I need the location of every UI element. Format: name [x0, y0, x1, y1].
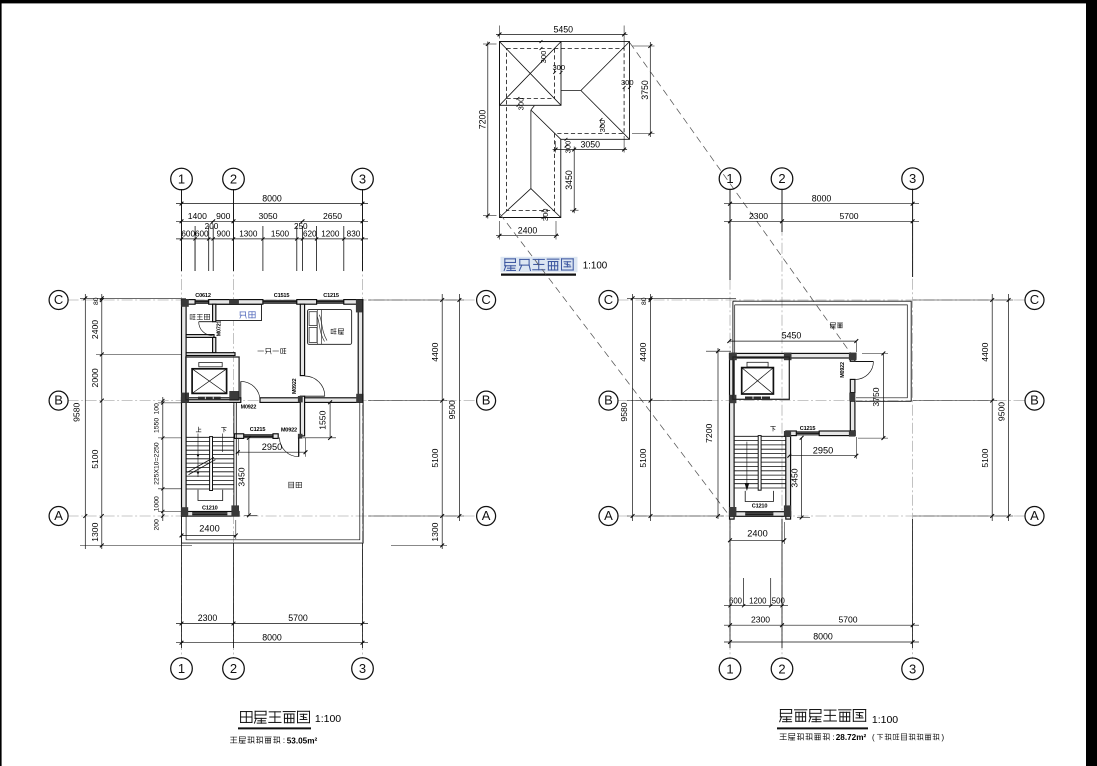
core right wall upper: [850, 358, 855, 361]
svg-text:C1215: C1215: [323, 293, 339, 299]
svg-text:8000: 8000: [812, 193, 832, 203]
svg-text:3450: 3450: [564, 170, 574, 190]
svg-text:4400: 4400: [638, 342, 648, 361]
svg-text:): ): [942, 733, 945, 742]
svg-text:A: A: [54, 508, 63, 523]
dim 2950: [238, 451, 306, 453]
roof eave outline: [500, 42, 630, 218]
svg-text:5100: 5100: [430, 448, 440, 467]
svg-text:1000: 1000: [154, 496, 161, 511]
svg-text:4400: 4400: [430, 342, 440, 361]
grid bubble 1: [171, 658, 193, 680]
grid bubble 3: [902, 658, 924, 680]
stair railing lower: [198, 490, 223, 501]
svg-text:1200: 1200: [749, 596, 767, 605]
lower hip left: [500, 189, 531, 218]
svg-text:600: 600: [729, 596, 743, 605]
stair divider: [210, 437, 213, 491]
door M0922 right plan arc: [856, 362, 874, 380]
svg-text:900: 900: [217, 230, 231, 239]
svg-text:830: 830: [347, 230, 361, 239]
svg-text:8000: 8000: [262, 193, 282, 203]
svg-text:9580: 9580: [71, 403, 81, 422]
left plan B wall: [182, 398, 241, 403]
valley line: [531, 110, 561, 139]
dim 1550 left plan: [329, 402, 331, 438]
projection ray 2: [630, 43, 851, 353]
svg-text:M0922: M0922: [241, 404, 257, 410]
living room label: [258, 350, 264, 352]
svg-text:8000: 8000: [813, 632, 833, 642]
svg-text:300: 300: [541, 208, 550, 221]
svg-text:2650: 2650: [323, 211, 342, 221]
elevator shaft left plan: [186, 357, 239, 400]
svg-text:53.05m²: 53.05m²: [287, 736, 318, 745]
terrace door M0922 (B wall) leaf: [240, 381, 242, 400]
left plan A wall with C1210: [182, 512, 240, 517]
columns left plan: [181, 299, 189, 307]
elevator car: [192, 369, 227, 394]
extension lines right: [368, 299, 464, 301]
svg-text:2: 2: [778, 171, 785, 186]
elevator sill rect: [199, 363, 222, 367]
svg-text:A: A: [1030, 508, 1039, 523]
left plan bottom dims: [181, 543, 183, 648]
big roof hip NE: [581, 42, 630, 91]
svg-text:2000: 2000: [90, 368, 100, 387]
grid bubble A: [1025, 507, 1044, 526]
svg-text:1300: 1300: [239, 230, 258, 239]
svg-text:225X10=2250: 225X10=2250: [154, 442, 161, 485]
svg-text:5100: 5100: [90, 449, 100, 468]
stairs right plan: [735, 435, 758, 437]
left plan right dim lines: [441, 294, 443, 549]
dashed wall outline (L shape): [507, 49, 625, 211]
svg-text:2400: 2400: [747, 529, 767, 539]
svg-text:C1215: C1215: [250, 427, 266, 433]
svg-text:B: B: [1030, 393, 1039, 408]
left plan left wall (axis1): [182, 300, 187, 517]
left plan left dim lines: [84, 294, 86, 549]
roof dim 2400 bottom: [496, 235, 559, 237]
lower hip right: [531, 189, 561, 218]
projection ray 1: [500, 214, 729, 515]
stair railing right plan: [745, 491, 773, 502]
stove label (blue): [240, 312, 246, 318]
left plan subtitle: [230, 737, 237, 743]
page border right: [1086, 0, 1097, 766]
right dim 2300/5700: [724, 220, 919, 222]
svg-text::: :: [283, 736, 285, 745]
terrace label: [289, 482, 294, 488]
svg-text:8000: 8000: [262, 632, 282, 642]
left dim row 1400/900/3050/2650: [176, 220, 368, 222]
dim 2950 right plan: [789, 455, 856, 457]
grid bubble 1: [171, 168, 193, 190]
grid bubble C: [599, 291, 618, 310]
svg-text:500: 500: [772, 596, 786, 605]
bedroom east outer line: [362, 300, 364, 403]
roof plan group: [478, 24, 655, 239]
svg-text:C: C: [604, 292, 613, 307]
svg-text:5450: 5450: [554, 24, 574, 34]
right plan left dim lines: [632, 294, 634, 521]
grid bubble C: [1025, 291, 1044, 310]
pavilion square roof: [500, 42, 562, 106]
svg-text::: :: [832, 733, 834, 742]
dim 7200 right plan: [717, 348, 719, 519]
svg-text:1300: 1300: [430, 522, 440, 541]
svg-text:1: 1: [178, 661, 185, 676]
right dim 8000: [724, 203, 919, 205]
dim 2400 right plan: [730, 539, 784, 541]
svg-text:5700: 5700: [288, 613, 308, 623]
svg-text:1:100: 1:100: [872, 714, 898, 726]
svg-text:C1210: C1210: [202, 506, 218, 512]
svg-text:M0922: M0922: [840, 362, 846, 378]
svg-text:600: 600: [195, 230, 209, 239]
svg-text:2400: 2400: [90, 320, 100, 339]
svg-text:2300: 2300: [751, 614, 770, 624]
svg-text:C1515: C1515: [274, 293, 290, 299]
grid bubble A: [49, 507, 68, 526]
svg-text:M0922: M0922: [281, 427, 297, 433]
svg-text:600: 600: [181, 230, 195, 239]
stair divider right: [758, 436, 761, 491]
svg-text:C: C: [54, 292, 63, 307]
grid bubble C: [477, 291, 496, 310]
svg-text:300: 300: [621, 78, 634, 87]
svg-text:5100: 5100: [980, 448, 990, 467]
svg-text:100: 100: [154, 403, 161, 415]
stove counter: [216, 305, 262, 321]
dim 2400 left plan bottom: [182, 534, 236, 536]
svg-text:3: 3: [359, 172, 366, 187]
left plan vertical axis lines: [181, 189, 183, 659]
hall door M0922 (south wall) leaf: [298, 438, 300, 457]
svg-text:3: 3: [909, 661, 916, 676]
stair labels up/down: [196, 427, 201, 432]
svg-text:3750: 3750: [871, 387, 881, 406]
grid bubble 2: [771, 168, 793, 190]
svg-text:B: B: [604, 393, 613, 408]
right plan left extensions: [627, 297, 736, 299]
svg-text:B: B: [54, 393, 63, 408]
bedroom partition wall: [300, 304, 304, 375]
svg-text:2950: 2950: [262, 442, 282, 452]
svg-text:1550: 1550: [154, 418, 161, 433]
svg-text:(: (: [872, 733, 875, 742]
svg-text:A: A: [604, 508, 613, 523]
columns right plan: [729, 353, 737, 361]
bathroom label: [190, 314, 195, 319]
svg-text:1: 1: [178, 172, 185, 187]
svg-text:3050: 3050: [581, 139, 601, 149]
svg-text:C1210: C1210: [752, 504, 768, 510]
core top wall: [730, 353, 857, 358]
hall south wall with C1215 + door: [235, 434, 244, 439]
dim 3750 right plan: [882, 353, 884, 438]
left plan horizontal axis lines: [68, 299, 478, 301]
extension lines left: [80, 297, 186, 299]
walk line with arrow: [746, 442, 748, 487]
svg-text:5700: 5700: [838, 614, 857, 624]
big roof ridge: [561, 90, 581, 92]
grid bubble 3: [352, 168, 374, 190]
svg-text:300: 300: [552, 63, 565, 72]
svg-text:3050: 3050: [258, 211, 277, 221]
grid bubble A: [599, 507, 618, 526]
svg-text:1400: 1400: [188, 211, 207, 221]
svg-text:900: 900: [216, 211, 231, 221]
left dim row 600..: [176, 238, 368, 240]
grid bubble 2: [223, 658, 245, 680]
right plan subtitle: [780, 734, 787, 740]
page border top: [0, 0, 1097, 3]
right plan title: [780, 710, 792, 722]
grid bubble 2: [223, 168, 245, 190]
svg-text:1500: 1500: [271, 230, 290, 239]
dashed pavilion walls: [507, 97, 555, 99]
hall door arc: [280, 438, 299, 457]
right dims 600/1200/500: [724, 605, 788, 607]
dim 3450 left plan: [248, 438, 250, 516]
right plan right extensions: [913, 299, 1013, 301]
svg-text:300: 300: [516, 98, 525, 111]
elevator shaft right plan: [733, 357, 789, 399]
C1215 wall right plan: [786, 431, 797, 436]
roof dim 3450 vertical: [573, 147, 575, 214]
svg-text:1300: 1300: [90, 522, 100, 541]
svg-text:1:100: 1:100: [315, 713, 341, 725]
svg-text:A: A: [482, 508, 491, 523]
page border left: [0, 0, 2, 766]
right plan right dim lines: [991, 294, 993, 521]
grid bubble B: [1025, 391, 1044, 410]
stair east wall right plan: [786, 436, 791, 519]
grid bubble 2: [771, 658, 793, 680]
terrace outline left plan: [182, 402, 364, 543]
right dims 2300/5700 bottom: [724, 624, 919, 626]
svg-text:C0612: C0612: [195, 293, 211, 299]
svg-text:300: 300: [598, 120, 607, 133]
roof dim 3050: [553, 149, 628, 151]
svg-text:1: 1: [726, 661, 733, 676]
big roof hip SE: [581, 91, 630, 140]
svg-text:C: C: [481, 292, 490, 307]
roof dim 7200 left: [487, 42, 489, 219]
svg-text:2: 2: [230, 172, 237, 187]
core left wall: [730, 353, 735, 519]
svg-text:3: 3: [359, 661, 366, 676]
svg-text:5450: 5450: [782, 331, 802, 341]
bed symbol: [308, 310, 352, 345]
lower band ridge: [530, 110, 532, 189]
svg-text:3450: 3450: [789, 468, 799, 487]
svg-text:1:100: 1:100: [583, 260, 608, 271]
left plan axis extension (top dims): [181, 189, 183, 271]
door M0922 right plan leaf: [856, 361, 874, 363]
bathroom south wall: [186, 335, 214, 338]
grid bubble 1: [719, 658, 741, 680]
stairs left plan: [187, 436, 210, 438]
svg-text:3450: 3450: [237, 467, 247, 486]
parapet outline right plan: [733, 301, 911, 401]
bathroom east wall: [213, 304, 216, 322]
svg-text:2: 2: [778, 661, 785, 676]
svg-text:9580: 9580: [619, 402, 629, 421]
down label right plan: [771, 426, 776, 431]
bedroom label: [331, 329, 336, 334]
terrace door arc: [241, 381, 260, 400]
bathroom door M0721 arc: [199, 322, 213, 336]
svg-text:3: 3: [909, 171, 916, 186]
left dim row 8000: [176, 203, 368, 205]
svg-text:620: 620: [303, 230, 317, 239]
roof deck label (wumian): [830, 323, 835, 328]
roof dim 5450 top: [496, 33, 628, 35]
left plan C wall segments: [182, 300, 196, 305]
svg-text:B: B: [482, 393, 491, 408]
grid bubble 3: [352, 658, 374, 680]
bedroom door M0922 leaf: [305, 395, 325, 397]
svg-text:3750: 3750: [640, 80, 650, 100]
roof plan title: [501, 257, 578, 272]
right plan vertical axis lines: [729, 189, 731, 659]
svg-text:2300: 2300: [749, 211, 768, 221]
grid bubble B: [599, 391, 618, 410]
stair break line: [187, 457, 214, 472]
right plan bottom extensions: [729, 519, 731, 648]
right dim 8000 bottom: [724, 641, 919, 643]
grid bubble 3: [902, 168, 924, 190]
stair east wall: [233, 402, 235, 516]
svg-text:2: 2: [230, 661, 237, 676]
svg-text:1200: 1200: [321, 230, 340, 239]
bed fold curves: [317, 316, 325, 342]
svg-text:2950: 2950: [813, 445, 833, 455]
svg-text:1: 1: [726, 171, 733, 186]
svg-text:1550: 1550: [317, 410, 327, 429]
svg-text:C1215: C1215: [800, 426, 816, 432]
svg-text:M0922: M0922: [292, 378, 298, 394]
dim 3450 right plan: [801, 438, 803, 518]
svg-text:300: 300: [539, 51, 548, 64]
grid bubble B: [49, 391, 68, 410]
svg-text:2400: 2400: [199, 524, 219, 534]
svg-text:7200: 7200: [704, 424, 714, 443]
svg-text:5700: 5700: [839, 211, 858, 221]
svg-text:7200: 7200: [478, 110, 488, 130]
inner dim line 225X10: [162, 397, 164, 521]
elevator door: [198, 397, 221, 399]
bedroom door M0922 arc: [305, 376, 325, 396]
svg-text:9500: 9500: [447, 400, 457, 419]
grid bubble A: [477, 507, 496, 526]
dim 5450 right plan: [729, 340, 856, 342]
svg-text:28.72m²: 28.72m²: [836, 733, 867, 742]
svg-text:C: C: [1030, 292, 1039, 307]
roof dim 3750 right: [649, 42, 651, 137]
right plan horizontal axis lines: [618, 299, 1026, 301]
svg-text:M0721: M0721: [216, 321, 222, 337]
grid bubble B: [477, 391, 496, 410]
stair room bottom wall: [730, 512, 791, 517]
svg-text:2400: 2400: [518, 225, 538, 235]
right plan top extensions: [729, 189, 731, 280]
svg-text:5100: 5100: [638, 448, 648, 467]
grid bubble C: [49, 291, 68, 310]
svg-text:2300: 2300: [198, 613, 218, 623]
walkline arrows: [197, 454, 199, 456]
grid bubble 1: [719, 168, 741, 190]
left plan bedroom east wall (axis3): [358, 300, 363, 403]
left plan title: [241, 712, 252, 723]
svg-text:200: 200: [154, 519, 161, 531]
pavilion diagonals: [500, 42, 562, 106]
left plan window extension lines top: [194, 226, 196, 271]
hall south wall (elevator top): [186, 353, 235, 356]
bathroom door M0721 leaf: [199, 321, 213, 323]
svg-text:4400: 4400: [980, 342, 990, 361]
stair walk lines: [197, 434, 199, 478]
svg-text:9500: 9500: [996, 402, 1006, 421]
